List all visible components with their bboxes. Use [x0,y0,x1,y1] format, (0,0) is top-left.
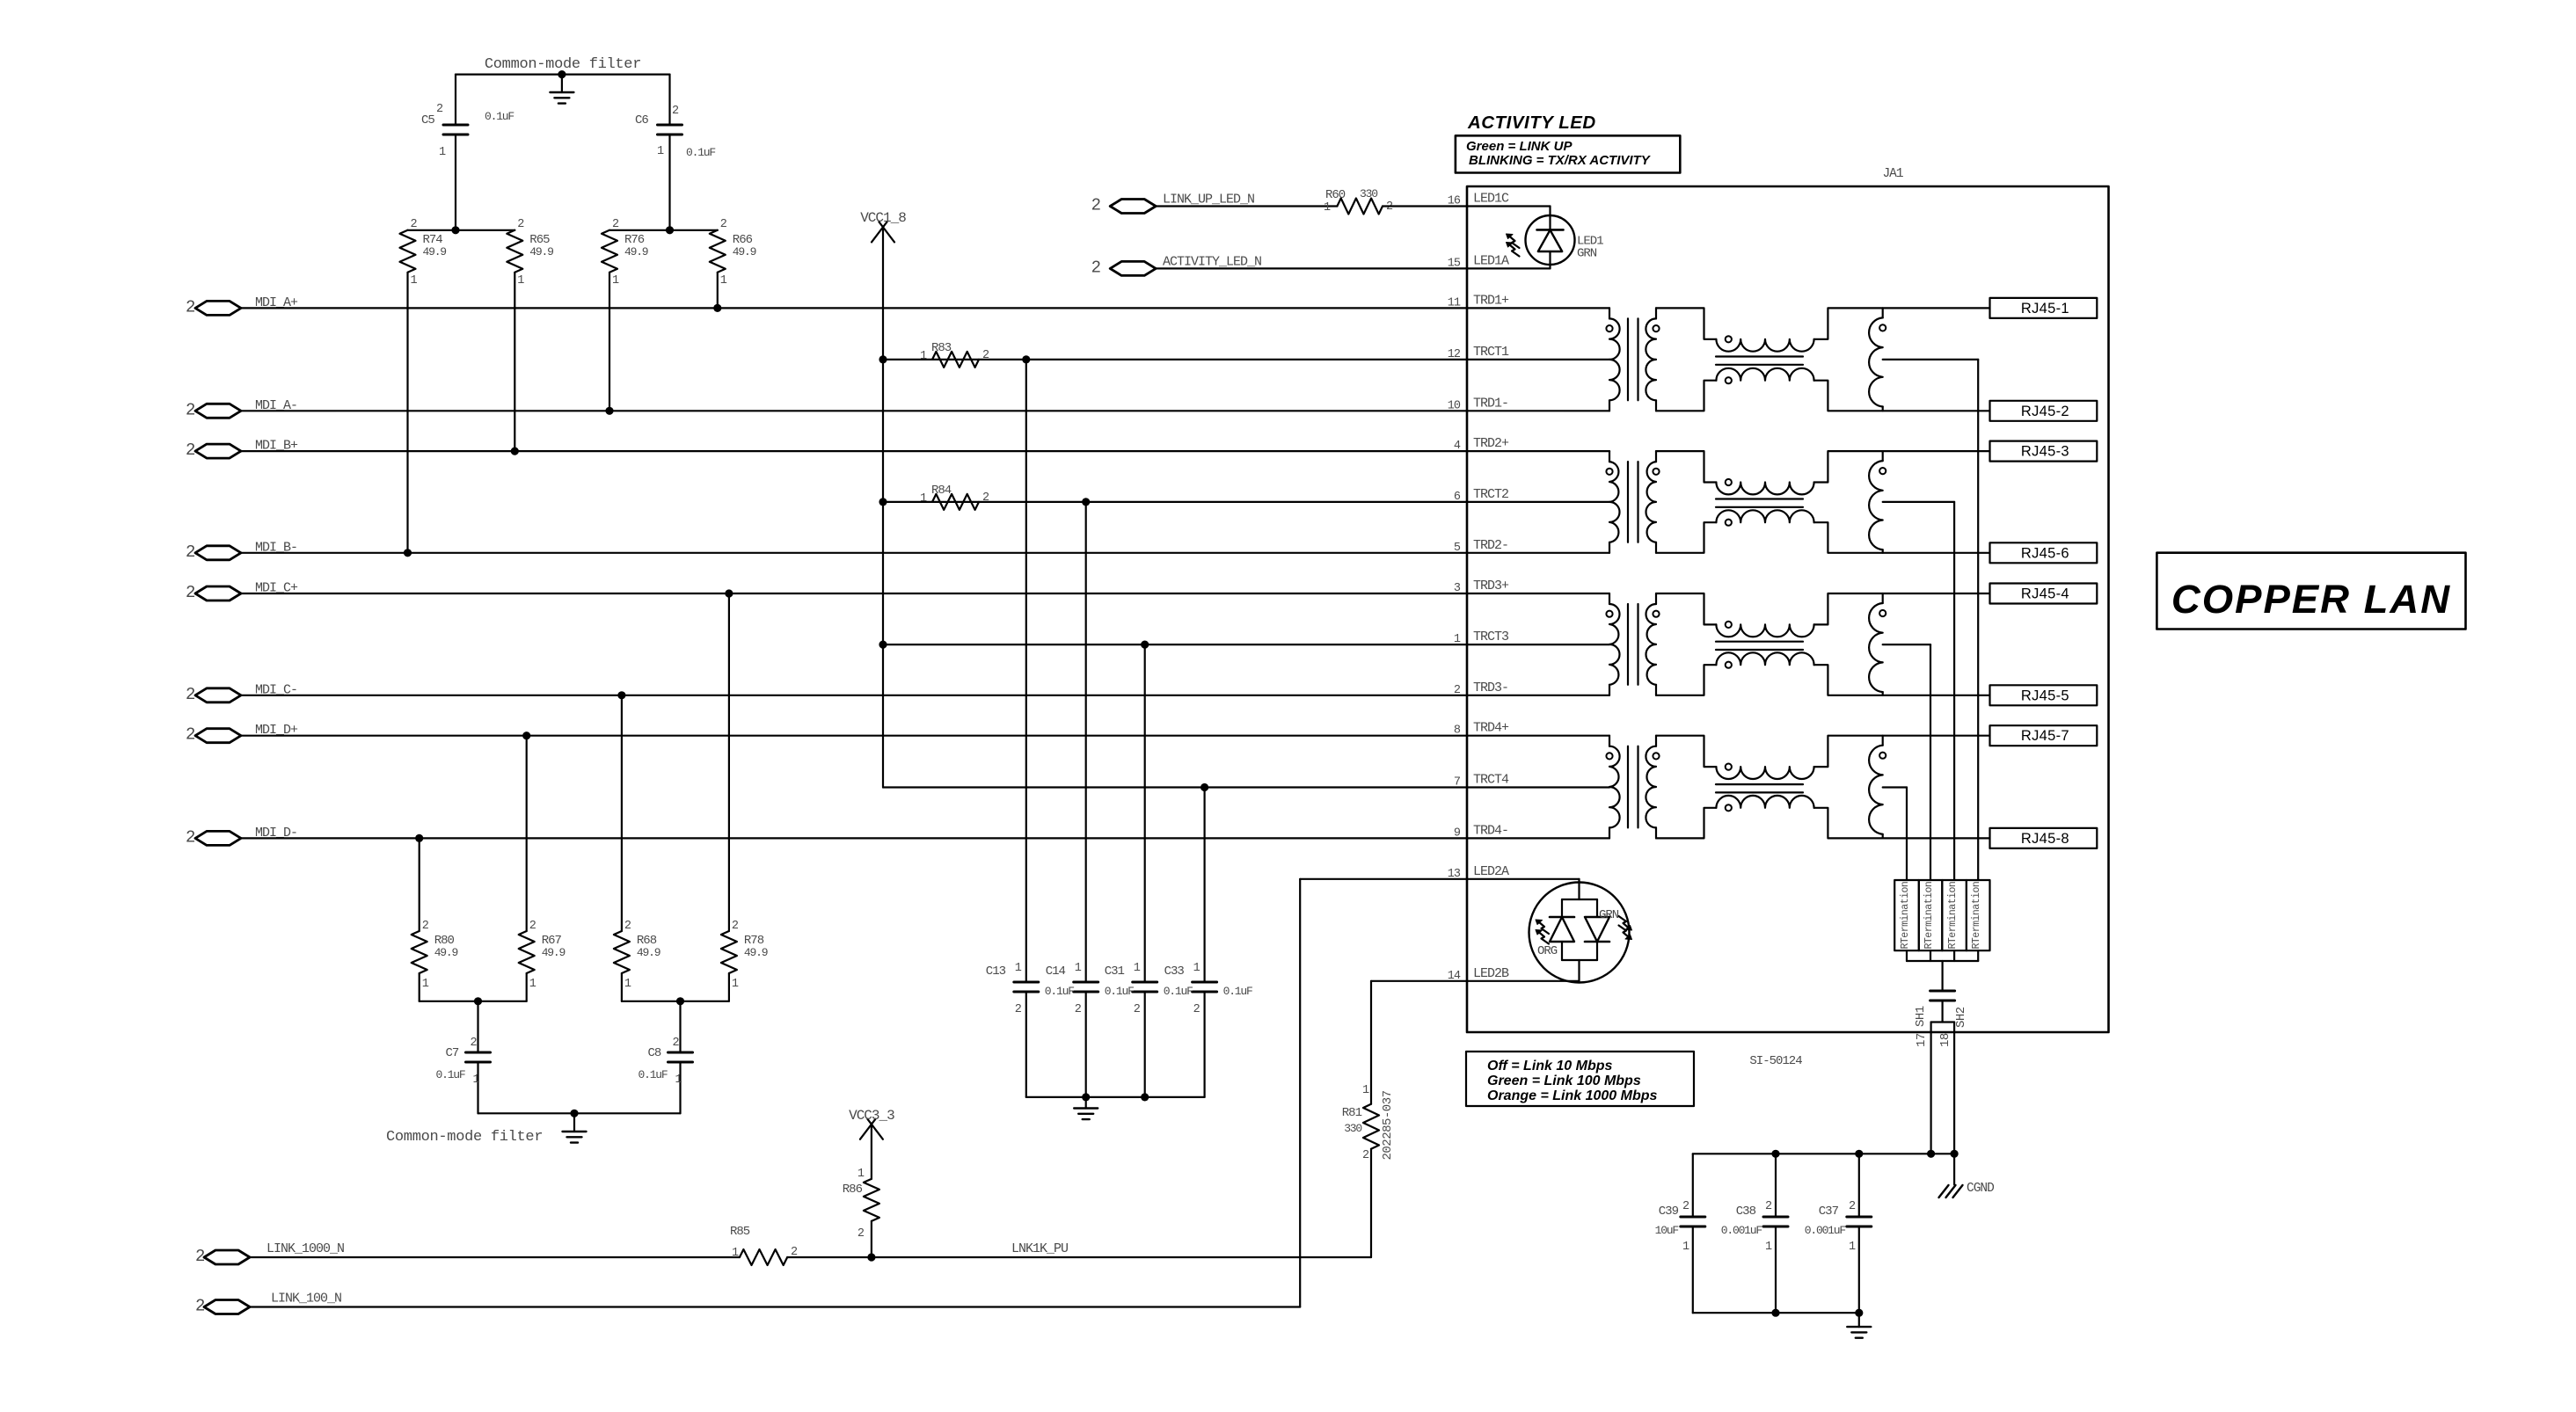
svg-text:330: 330 [1344,1122,1361,1135]
svg-text:2: 2 [732,920,739,933]
svg-text:1: 1 [439,146,446,159]
svg-text:2: 2 [720,218,727,231]
svg-text:RJ45-7: RJ45-7 [2021,728,2069,744]
svg-text:JA1: JA1 [1882,167,1902,181]
svg-text:RJ45-8: RJ45-8 [2021,831,2069,847]
svg-text:RTermination: RTermination [1900,882,1911,950]
svg-text:R84: R84 [931,484,952,498]
svg-text:TRD4+: TRD4+ [1473,721,1509,736]
svg-text:15: 15 [1448,257,1461,270]
svg-text:RJ45-4: RJ45-4 [2021,586,2069,602]
svg-text:2: 2 [186,297,195,317]
svg-text:11: 11 [1448,296,1461,309]
svg-text:49.9: 49.9 [624,245,648,258]
svg-text:1: 1 [624,978,631,991]
svg-text:1: 1 [920,350,927,363]
svg-text:2: 2 [471,1037,478,1050]
svg-text:1: 1 [732,978,739,991]
svg-text:2: 2 [411,218,418,231]
svg-text:2: 2 [672,105,679,118]
svg-text:2: 2 [517,218,524,231]
svg-text:TRD1+: TRD1+ [1473,293,1509,308]
svg-text:1: 1 [732,1247,739,1260]
svg-text:12: 12 [1448,348,1461,361]
svg-text:R85: R85 [730,1225,750,1239]
svg-text:2: 2 [857,1227,865,1241]
svg-text:C39: C39 [1659,1205,1679,1219]
svg-text:2: 2 [673,1037,680,1050]
svg-text:1: 1 [529,978,536,991]
svg-text:1: 1 [675,1074,682,1087]
svg-text:GRN: GRN [1599,908,1619,922]
svg-text:0.1uF: 0.1uF [639,1068,668,1081]
svg-text:LINK_UP_LED_N: LINK_UP_LED_N [1163,193,1254,207]
svg-text:LINK_100_N: LINK_100_N [271,1292,341,1306]
svg-text:3: 3 [1454,582,1461,595]
svg-text:0.001uF: 0.001uF [1721,1224,1762,1237]
svg-text:1: 1 [920,492,927,506]
svg-text:2: 2 [1362,1149,1369,1162]
svg-text:BLINKING = TX/RX ACTIVITY: BLINKING = TX/RX ACTIVITY [1469,153,1652,168]
svg-text:LINK_1000_N: LINK_1000_N [266,1241,344,1256]
svg-text:SH2: SH2 [1954,1007,1968,1028]
svg-text:2: 2 [422,920,429,933]
svg-text:TRD1-: TRD1- [1473,396,1508,411]
svg-text:1: 1 [1765,1241,1772,1254]
svg-text:49.9: 49.9 [434,946,458,959]
svg-text:TRCT4: TRCT4 [1473,773,1509,788]
svg-text:LED2A: LED2A [1473,864,1509,879]
svg-text:2: 2 [1193,1003,1200,1016]
svg-text:10: 10 [1448,399,1461,412]
svg-text:18: 18 [1938,1033,1952,1047]
svg-text:LED2B: LED2B [1473,966,1509,981]
svg-text:2: 2 [1454,684,1461,697]
svg-text:RTermination: RTermination [1923,882,1935,950]
svg-text:49.9: 49.9 [529,245,553,258]
svg-text:C33: C33 [1164,964,1185,979]
svg-text:2: 2 [982,491,989,505]
svg-text:C38: C38 [1736,1205,1756,1219]
svg-text:RJ45-3: RJ45-3 [2021,444,2069,460]
svg-text:1: 1 [422,978,429,991]
svg-text:6: 6 [1454,491,1461,504]
svg-text:TRCT1: TRCT1 [1473,345,1509,360]
svg-text:10uF: 10uF [1655,1224,1679,1237]
svg-text:2: 2 [186,542,195,562]
svg-text:R60: R60 [1325,188,1346,202]
svg-text:0.001uF: 0.001uF [1805,1224,1846,1237]
svg-text:RJ45-6: RJ45-6 [2021,545,2069,561]
svg-text:2: 2 [195,1297,205,1316]
svg-text:Orange = Link 1000 Mbps: Orange = Link 1000 Mbps [1487,1088,1658,1103]
svg-text:C31: C31 [1105,964,1125,979]
svg-text:Off = Link 10 Mbps: Off = Link 10 Mbps [1487,1059,1613,1074]
svg-text:1: 1 [612,274,619,287]
svg-text:Green = LINK UP: Green = LINK UP [1466,139,1573,154]
svg-text:1: 1 [1015,962,1022,975]
svg-text:RJ45-2: RJ45-2 [2021,404,2069,419]
svg-text:C13: C13 [986,964,1006,979]
svg-text:R86: R86 [843,1183,863,1197]
svg-text:2: 2 [982,349,989,362]
svg-text:17: 17 [1915,1033,1929,1047]
svg-text:2: 2 [186,827,195,847]
svg-text:LED1C: LED1C [1473,192,1509,207]
svg-text:49.9: 49.9 [744,946,768,959]
svg-text:VCC1_8: VCC1_8 [860,210,906,226]
svg-text:2: 2 [1091,196,1101,215]
svg-text:0.1uF: 0.1uF [485,110,514,123]
svg-text:CGND: CGND [1967,1182,1994,1196]
svg-text:1: 1 [1193,962,1200,975]
svg-text:1: 1 [517,274,524,287]
svg-text:1: 1 [1362,1084,1369,1097]
svg-text:RTermination: RTermination [1947,882,1959,950]
svg-text:TRCT3: TRCT3 [1473,630,1509,644]
svg-text:Common-mode filter: Common-mode filter [485,56,641,73]
svg-text:COPPER LAN: COPPER LAN [2171,577,2451,622]
svg-text:0.1uF: 0.1uF [1105,985,1134,998]
svg-text:2: 2 [1682,1200,1689,1213]
svg-text:8: 8 [1454,724,1461,738]
svg-text:5: 5 [1454,542,1461,555]
svg-text:C14: C14 [1046,964,1066,979]
svg-text:1: 1 [1849,1241,1856,1254]
svg-text:SH1: SH1 [1914,1006,1928,1027]
svg-text:1: 1 [720,274,727,287]
svg-text:TRCT2: TRCT2 [1473,487,1508,502]
svg-text:49.9: 49.9 [542,946,566,959]
svg-text:1: 1 [1134,962,1141,975]
svg-text:330: 330 [1360,187,1377,200]
svg-text:0.1uF: 0.1uF [436,1068,465,1081]
svg-text:16: 16 [1448,195,1461,208]
svg-text:2: 2 [1134,1003,1141,1016]
svg-text:0.1uF: 0.1uF [1045,985,1074,998]
svg-text:202285-037: 202285-037 [1381,1090,1395,1160]
svg-text:TRD3-: TRD3- [1473,681,1508,695]
svg-text:2: 2 [612,218,619,231]
svg-text:2: 2 [186,583,195,602]
svg-text:49.9: 49.9 [733,245,756,258]
svg-text:RTermination: RTermination [1971,882,1982,950]
svg-text:C8: C8 [648,1046,661,1060]
svg-text:2: 2 [1091,258,1101,277]
svg-text:SI-50124: SI-50124 [1749,1054,1802,1068]
svg-text:1: 1 [1682,1241,1689,1254]
svg-text:C6: C6 [635,113,648,127]
svg-text:TRD2+: TRD2+ [1473,436,1509,451]
svg-text:1: 1 [473,1074,480,1087]
svg-text:ACTIVITY_LED_N: ACTIVITY_LED_N [1163,254,1261,269]
svg-text:ACTIVITY LED: ACTIVITY LED [1467,113,1596,133]
svg-text:TRD3+: TRD3+ [1473,579,1509,593]
svg-text:R83: R83 [931,341,952,355]
svg-text:2: 2 [1849,1200,1856,1213]
svg-text:2: 2 [195,1247,205,1266]
svg-text:2: 2 [1015,1003,1022,1016]
svg-text:TRD2-: TRD2- [1473,538,1508,553]
svg-text:2: 2 [1075,1003,1082,1016]
svg-text:Common-mode filter: Common-mode filter [386,1129,543,1146]
svg-text:2: 2 [436,103,443,116]
svg-text:2: 2 [186,400,195,419]
svg-text:2: 2 [529,920,536,933]
svg-text:VCC3_3: VCC3_3 [849,1108,894,1124]
svg-text:49.9: 49.9 [423,245,447,258]
svg-text:0.1uF: 0.1uF [1164,985,1193,998]
svg-text:2: 2 [186,685,195,704]
svg-text:2: 2 [186,725,195,745]
svg-text:R81: R81 [1342,1106,1362,1120]
svg-text:Green = Link 100 Mbps: Green = Link 100 Mbps [1487,1074,1641,1088]
svg-text:1: 1 [857,1168,865,1181]
svg-text:2: 2 [186,440,195,460]
svg-text:GRN: GRN [1577,247,1597,261]
svg-text:1: 1 [1075,962,1082,975]
svg-text:RJ45-5: RJ45-5 [2021,688,2069,703]
svg-text:0.1uF: 0.1uF [1223,985,1252,998]
svg-text:1: 1 [411,274,418,287]
svg-text:LNK1K_PU: LNK1K_PU [1011,1241,1068,1256]
svg-text:TRD4-: TRD4- [1473,823,1508,838]
svg-text:9: 9 [1454,826,1461,840]
svg-text:RJ45-1: RJ45-1 [2021,301,2069,317]
svg-text:1: 1 [657,145,664,158]
svg-text:ORG: ORG [1537,944,1558,958]
svg-text:C37: C37 [1819,1205,1839,1219]
svg-text:7: 7 [1454,776,1461,790]
svg-text:1: 1 [1324,201,1331,215]
svg-text:1: 1 [1454,633,1461,646]
svg-text:2: 2 [1765,1200,1772,1213]
svg-text:0.1uF: 0.1uF [686,146,715,159]
svg-text:C5: C5 [421,113,434,127]
svg-text:C7: C7 [446,1046,459,1060]
svg-text:LED1A: LED1A [1473,253,1509,268]
svg-text:4: 4 [1454,440,1461,453]
svg-text:2: 2 [624,920,631,933]
svg-text:49.9: 49.9 [637,946,660,959]
